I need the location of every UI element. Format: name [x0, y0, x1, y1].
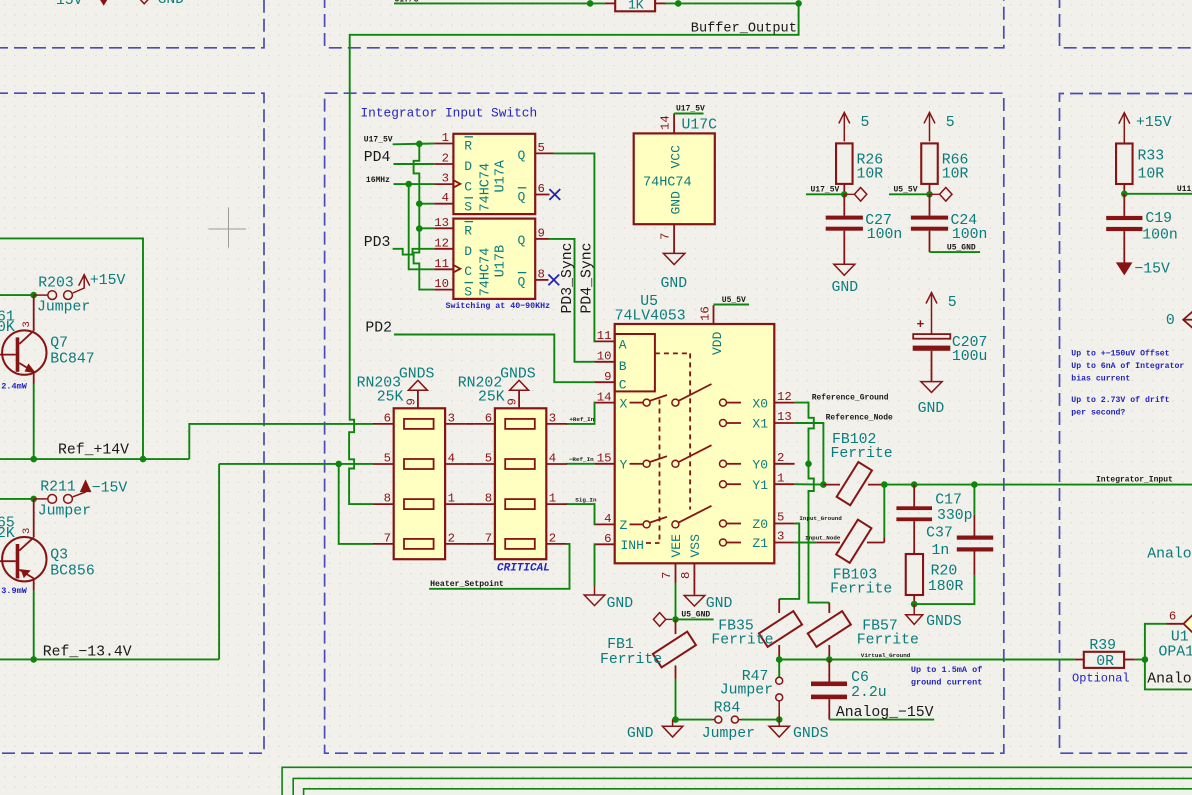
svg-text:12: 12 — [777, 390, 792, 404]
U17B pin 12 — [434, 248, 453, 250]
svg-text:1K: 1K — [628, 0, 644, 13]
U17A pin 5 — [535, 152, 553, 154]
svg-text:7: 7 — [485, 531, 492, 545]
resistor network RN202 25K — [495, 408, 546, 559]
wire Sig_In to U5.Z — [566, 504, 595, 524]
svg-text:3.9mW: 3.9mW — [1, 586, 27, 596]
U5 pin 5 — [774, 523, 794, 525]
svg-text:74LV4053: 74LV4053 — [615, 309, 686, 325]
power flag diamond — [930, 193, 940, 195]
resistor R20 — [913, 521, 915, 554]
origin cross marker — [209, 228, 247, 230]
power flag diamond at U5_GND — [666, 618, 672, 620]
svg-text:R84: R84 — [714, 701, 741, 717]
svg-text:74HC74: 74HC74 — [479, 248, 494, 297]
U17C pin 7 GND — [673, 224, 675, 253]
sheet rectangle outer — [282, 767, 1192, 795]
RN203 pin 8 — [373, 503, 394, 505]
U5 pin 13 — [774, 422, 794, 424]
RN203 pin 4 — [445, 463, 466, 465]
svg-text:Jumper: Jumper — [720, 683, 773, 699]
svg-text:C19: C19 — [1145, 211, 1172, 227]
svg-text:4: 4 — [448, 452, 455, 466]
wire FB1 down — [675, 679, 677, 720]
svg-text:0: 0 — [1166, 313, 1175, 329]
svg-text:11: 11 — [597, 329, 612, 343]
svg-text:Analog: Analog — [1147, 672, 1192, 688]
RN202 pin 1 — [546, 503, 567, 505]
svg-text:6: 6 — [1169, 610, 1176, 624]
svg-text:X1: X1 — [752, 417, 768, 432]
svg-text:25K: 25K — [377, 390, 404, 406]
junction pin13 — [416, 225, 423, 232]
svg-text:Z0: Z0 — [752, 517, 768, 532]
svg-text:D: D — [464, 244, 472, 259]
U17B pin 9 — [535, 238, 548, 240]
svg-text:−Ref_In: −Ref_In — [569, 456, 594, 463]
svg-text:GND: GND — [918, 401, 945, 417]
svg-text:U17_5V: U17_5V — [364, 135, 393, 144]
capacitor C37 — [973, 485, 975, 515]
svg-text:9: 9 — [604, 370, 611, 384]
svg-text:Ferrite: Ferrite — [711, 633, 773, 649]
svg-text:13: 13 — [777, 410, 792, 424]
junction — [1142, 656, 1149, 663]
svg-text:per second?: per second? — [1071, 407, 1125, 417]
svg-text:5: 5 — [538, 141, 545, 155]
junction — [416, 141, 423, 148]
wire Q3 emitter down — [33, 591, 35, 660]
svg-text:GNDS: GNDS — [399, 366, 435, 382]
RN202 element row 2 — [505, 459, 535, 469]
svg-text:0R: 0R — [1096, 654, 1114, 670]
RN202 pin 8 — [474, 503, 495, 505]
U5 contact Y1 — [720, 481, 727, 488]
sheet rectangle inner — [304, 789, 1192, 795]
wire PD4 to pin2 — [394, 163, 435, 165]
RN203 pin 3 — [445, 423, 466, 425]
U17B pin 13 — [434, 227, 453, 229]
svg-text:16: 16 — [699, 306, 713, 321]
ground flag GNDS below R84 — [778, 720, 780, 727]
svg-text:3: 3 — [21, 528, 33, 534]
svg-text:GNDS: GNDS — [926, 614, 962, 630]
svg-text:Q: Q — [518, 148, 526, 163]
capacitor C19 — [1123, 194, 1125, 216]
analog switch U5 74LV4053 — [615, 324, 775, 563]
wire R203 row — [0, 294, 34, 296]
svg-text:Input_Node: Input_Node — [805, 534, 841, 541]
svg-text:Jumper: Jumper — [702, 726, 755, 742]
svg-text:Ferrite: Ferrite — [830, 582, 892, 598]
svg-text:74HC74: 74HC74 — [479, 163, 494, 212]
svg-text:5: 5 — [485, 452, 492, 466]
svg-text:Jumper: Jumper — [37, 300, 90, 316]
svg-text:7: 7 — [660, 572, 674, 579]
U5 contact Y0 — [720, 460, 727, 467]
svg-text:8: 8 — [485, 492, 492, 506]
svg-text:U5_5V: U5_5V — [722, 296, 746, 305]
RN203 pin 9 — [417, 390, 419, 408]
ground below C27 — [843, 231, 845, 265]
junction Y0 — [805, 461, 812, 468]
junction C37 — [971, 481, 978, 488]
U5 select box ABC — [615, 334, 655, 391]
label U5_5V at R66 — [889, 193, 930, 195]
capacitor C27 — [843, 194, 845, 215]
wire analog lower — [1145, 660, 1192, 690]
U17B clock wedge — [453, 265, 460, 272]
wire to U1 pin 6 — [1145, 624, 1167, 660]
svg-text:GND: GND — [661, 276, 688, 292]
jumper R47 — [778, 660, 780, 678]
svg-text:Y1: Y1 — [752, 478, 768, 493]
label U5_GND below C24 — [929, 231, 931, 252]
junction — [335, 461, 342, 468]
wire -Ref_In to U5.Y — [566, 463, 595, 465]
RN202 pin 6 — [474, 423, 495, 425]
junction — [841, 191, 848, 198]
wire rail 16MHz down to pin11 — [409, 184, 435, 269]
svg-text:3: 3 — [777, 530, 784, 544]
svg-text:2.2u: 2.2u — [851, 685, 887, 701]
svg-text:VCC: VCC — [669, 145, 684, 169]
wire VEE to U5_GND — [675, 583, 677, 619]
wire Buffer_Output — [350, 3, 799, 93]
svg-text:C17: C17 — [935, 493, 962, 509]
svg-text:B: B — [619, 359, 627, 374]
wire +Ref_In to U5.X — [566, 403, 595, 424]
wire Reference_Ground from pin12 — [795, 403, 814, 464]
svg-text:OPA1: OPA1 — [1159, 645, 1192, 661]
svg-text:−15V: −15V — [47, 0, 83, 9]
RN202 pin 7 — [474, 543, 495, 545]
wire R211 row — [0, 498, 34, 500]
svg-text:Reference_Node: Reference_Node — [826, 414, 893, 423]
junction — [776, 716, 783, 723]
svg-text:X0: X0 — [752, 396, 768, 411]
svg-text:330p: 330p — [937, 508, 973, 524]
svg-text:U17C: U17C — [682, 118, 718, 134]
svg-text:16MHz: 16MHz — [366, 176, 390, 185]
junction — [140, 456, 147, 463]
svg-text:Up to 1.5mA of: Up to 1.5mA of — [911, 665, 982, 675]
label U5_GND — [676, 618, 714, 620]
wire left net to riser — [0, 238, 143, 459]
U5 contact X0 — [720, 399, 727, 406]
power 5 arrow at C207 — [931, 293, 933, 335]
svg-text:+Ref_In: +Ref_In — [569, 416, 594, 423]
jumper R211 — [34, 498, 48, 500]
ground below VSS — [693, 594, 695, 596]
wire Virtual_Ground — [779, 659, 1074, 661]
ground flag GNDS below R20 — [913, 604, 915, 615]
svg-text:8: 8 — [679, 572, 693, 579]
svg-text:11: 11 — [434, 257, 449, 271]
gate U17C 74HC74 power unit — [634, 133, 715, 224]
dashed box middle-left — [0, 93, 264, 753]
svg-text:S: S — [464, 284, 472, 299]
svg-text:PD3: PD3 — [364, 235, 391, 251]
svg-text:6: 6 — [485, 411, 492, 425]
svg-text:U1: U1 — [1171, 630, 1189, 646]
svg-text:3: 3 — [442, 172, 449, 186]
wire PD4_Sync (U17A.Q to U5.A) — [554, 153, 595, 341]
RN203 pin 2 — [445, 543, 466, 545]
svg-text:R33: R33 — [1138, 149, 1165, 165]
U17B pin 11 — [434, 268, 453, 270]
svg-text:Heater_Setpoint: Heater_Setpoint — [430, 579, 504, 589]
wire to RN203 row2 — [219, 463, 373, 465]
RN202 pin 4 — [546, 463, 567, 465]
RN203 pin 5 — [373, 463, 394, 465]
sheet rectangle middle — [293, 778, 1192, 795]
svg-text:Input_Ground: Input_Ground — [799, 515, 842, 522]
svg-text:GND: GND — [158, 0, 185, 8]
svg-text:GND: GND — [627, 726, 654, 742]
svg-text:PD2: PD2 — [365, 321, 392, 337]
svg-text:D: D — [464, 159, 472, 174]
junction — [587, 0, 594, 7]
svg-text:Ferrite: Ferrite — [600, 652, 662, 668]
flip-flop U17B 74HC74 — [453, 219, 535, 299]
svg-text:6: 6 — [384, 411, 391, 425]
resistor R39 0R — [1084, 652, 1124, 668]
U17A pin 1 — [434, 143, 453, 145]
resistor R8 1K (clipped) — [615, 0, 655, 11]
svg-text:1: 1 — [777, 471, 784, 485]
ground below INH — [594, 586, 596, 595]
svg-text:5: 5 — [946, 115, 955, 131]
svg-text:−15V: −15V — [1134, 262, 1170, 278]
RN203 pin 7 — [373, 543, 394, 545]
svg-text:9: 9 — [404, 398, 418, 405]
svg-text:Jumper: Jumper — [38, 504, 91, 520]
svg-text:25K: 25K — [478, 390, 505, 406]
ferrite FB1 — [675, 619, 677, 634]
RN202 pin 2 — [546, 543, 567, 545]
svg-text:3: 3 — [448, 411, 455, 425]
svg-text:9: 9 — [538, 226, 545, 240]
svg-text:VDD: VDD — [710, 331, 725, 355]
svg-text:Y: Y — [620, 458, 628, 473]
svg-text:5: 5 — [861, 115, 870, 131]
junction — [30, 292, 37, 299]
RN203 element row 4 — [404, 539, 434, 549]
wire INH to ground — [594, 544, 596, 586]
svg-text:U17/8: U17/8 — [395, 0, 419, 5]
power flag diamond — [844, 193, 854, 195]
wire Ref_+14V — [0, 458, 189, 460]
U17B pin 10 — [434, 289, 453, 291]
svg-text:U17A: U17A — [494, 159, 509, 192]
ground flag GNDS above RN203 — [408, 380, 427, 390]
wire PD3_Sync (U17B.Q to U5.B) — [549, 239, 595, 362]
svg-text:C: C — [464, 264, 472, 279]
U5 pin 12 — [774, 402, 794, 404]
U5 pin 15 — [595, 463, 615, 465]
RN202 element row 3 — [505, 499, 535, 509]
svg-text:1: 1 — [442, 131, 449, 145]
svg-text:ground current: ground current — [911, 678, 982, 688]
resistor network RN203 25K — [394, 408, 445, 559]
svg-text:5: 5 — [777, 511, 784, 525]
svg-text:Ferrite: Ferrite — [857, 633, 919, 649]
U17A pin 6 — [535, 194, 549, 196]
svg-text:7: 7 — [659, 233, 673, 240]
ferrite FB57 — [828, 603, 830, 613]
svg-text:R: R — [464, 223, 472, 238]
svg-text:2K: 2K — [0, 526, 15, 542]
U5 contact X1 — [720, 420, 727, 427]
svg-text:VSS: VSS — [688, 534, 703, 558]
svg-text:C: C — [619, 377, 627, 392]
svg-text:PD4_Sync: PD4_Sync — [579, 242, 595, 313]
svg-text:100u: 100u — [952, 349, 988, 365]
svg-text:R211: R211 — [40, 480, 76, 496]
svg-text:X: X — [620, 396, 628, 411]
svg-text:GND: GND — [669, 191, 684, 215]
junction U5_GND — [672, 616, 679, 623]
svg-text:+15V: +15V — [90, 273, 126, 289]
label U5_5V at pin16 — [714, 304, 750, 306]
svg-text:Buffer_Output: Buffer_Output — [691, 22, 797, 37]
junction — [826, 656, 833, 663]
svg-text:1: 1 — [448, 492, 455, 506]
wire C37 to R20 bottom — [914, 575, 974, 604]
transistor Q3 BC856 — [2, 537, 46, 581]
ground flag GNDS above RN202 — [510, 380, 529, 390]
ground below U17C — [673, 252, 675, 254]
svg-text:GNDS: GNDS — [500, 366, 536, 382]
no-connect X pin 6 — [549, 189, 560, 200]
svg-text:C37: C37 — [926, 526, 953, 542]
svg-text:U17_5V: U17_5V — [811, 185, 840, 194]
svg-text:13: 13 — [434, 216, 449, 230]
svg-text:9: 9 — [506, 398, 520, 405]
wire rail U17_5V down — [414, 144, 435, 290]
wire Reference_Node from pin13 — [795, 423, 824, 485]
svg-text:4: 4 — [604, 512, 611, 526]
wires between RN203 and RN202 — [466, 423, 474, 425]
svg-text:Ref_−13.4V: Ref_−13.4V — [43, 644, 132, 660]
wire vertical Ref_-13.4V riser — [218, 464, 220, 660]
svg-text:Analog: Analog — [1147, 547, 1192, 563]
junction — [1121, 191, 1128, 198]
junction 16MHz rail — [405, 181, 412, 188]
power -15V below C19 — [1123, 231, 1125, 263]
svg-text:7: 7 — [384, 531, 391, 545]
svg-text:3: 3 — [549, 411, 556, 425]
wire PD3 to pin12 — [393, 249, 435, 255]
U5 pin 9 — [595, 381, 615, 383]
RN203 element row 2 — [404, 459, 434, 469]
wire Integrator_Input node — [884, 484, 1192, 486]
wire U17_5V to pin1 — [393, 143, 435, 146]
svg-text:6: 6 — [604, 532, 611, 546]
junction Q7 emitter at Ref_+14V — [30, 456, 37, 463]
jumper R203 — [34, 294, 48, 296]
wire Analog_-15V — [829, 719, 934, 721]
RN202 pin 3 — [546, 423, 567, 425]
junction — [30, 496, 37, 503]
svg-text:Q: Q — [518, 190, 526, 205]
junction — [926, 191, 933, 198]
svg-text:GNDS: GNDS — [793, 726, 829, 742]
svg-text:+: + — [917, 317, 925, 332]
svg-text:Up to 6nA of Integrator: Up to 6nA of Integrator — [1071, 361, 1184, 371]
jumper R84 — [676, 719, 713, 721]
U17A pin 2 — [434, 163, 453, 165]
U5 pin 7 VEE — [675, 563, 677, 583]
U5 pin 8 VSS — [693, 563, 695, 593]
svg-text:15: 15 — [597, 452, 612, 466]
svg-text:8: 8 — [384, 492, 391, 506]
U5 pin 10 — [595, 361, 615, 363]
svg-text:VEE: VEE — [669, 534, 684, 558]
dashed box right — [1060, 94, 1192, 754]
ground at R84 left — [672, 720, 674, 727]
svg-text:BC847: BC847 — [50, 351, 94, 367]
svg-text:R39: R39 — [1089, 638, 1116, 654]
svg-text:U17B: U17B — [494, 245, 509, 277]
U17A pin 3 — [434, 183, 453, 185]
wire 16MHz to pin3 — [394, 183, 435, 185]
svg-text:Integrator_Input: Integrator_Input — [1096, 476, 1173, 485]
svg-text:2: 2 — [549, 531, 556, 545]
svg-text:C6: C6 — [851, 670, 869, 686]
svg-text:FB1: FB1 — [607, 637, 634, 653]
svg-text:2.4mW: 2.4mW — [1, 382, 27, 392]
svg-text:BC856: BC856 — [50, 563, 94, 579]
RN203 pin 1 — [445, 503, 466, 505]
svg-text:100n: 100n — [1142, 228, 1178, 244]
svg-text:3: 3 — [21, 321, 33, 327]
dashed box top-left — [0, 0, 264, 48]
junction — [675, 0, 682, 7]
wire Y1 row — [795, 483, 824, 485]
RN202 element row 4 — [505, 539, 535, 549]
svg-text:GND: GND — [706, 596, 733, 612]
capacitor C24 — [929, 194, 931, 215]
svg-text:Up to +−150uV Offset: Up to +−150uV Offset — [1071, 349, 1169, 359]
svg-text:R: R — [464, 139, 472, 154]
svg-text:Integrator Input Switch: Integrator Input Switch — [361, 106, 538, 121]
svg-text:GND: GND — [832, 280, 859, 296]
svg-text:A: A — [619, 337, 627, 352]
RN203 pin 6 — [373, 423, 394, 425]
RN203 element row 3 — [404, 499, 434, 509]
svg-text:Y0: Y0 — [752, 458, 768, 473]
ferrite FB103 — [816, 542, 840, 544]
svg-text:Z1: Z1 — [752, 536, 768, 551]
svg-text:1: 1 — [549, 492, 556, 506]
svg-text:Q: Q — [518, 233, 526, 248]
wire U11_5V — [1124, 193, 1192, 195]
ferrite FB35 — [778, 599, 780, 613]
U5 control dashed lines — [655, 352, 690, 354]
wire to RN203 row3 — [349, 424, 373, 504]
svg-text:PD4: PD4 — [364, 150, 391, 166]
RN202 element row 1 — [505, 419, 535, 429]
junction pin4 — [416, 200, 423, 207]
svg-text:8: 8 — [538, 267, 545, 281]
wire to RN203 row1 — [189, 424, 373, 459]
wire top net — [394, 2, 605, 4]
svg-text:bias current: bias current — [1071, 373, 1130, 383]
svg-text:180R: 180R — [928, 579, 964, 595]
junction R20 bottom — [911, 601, 918, 608]
